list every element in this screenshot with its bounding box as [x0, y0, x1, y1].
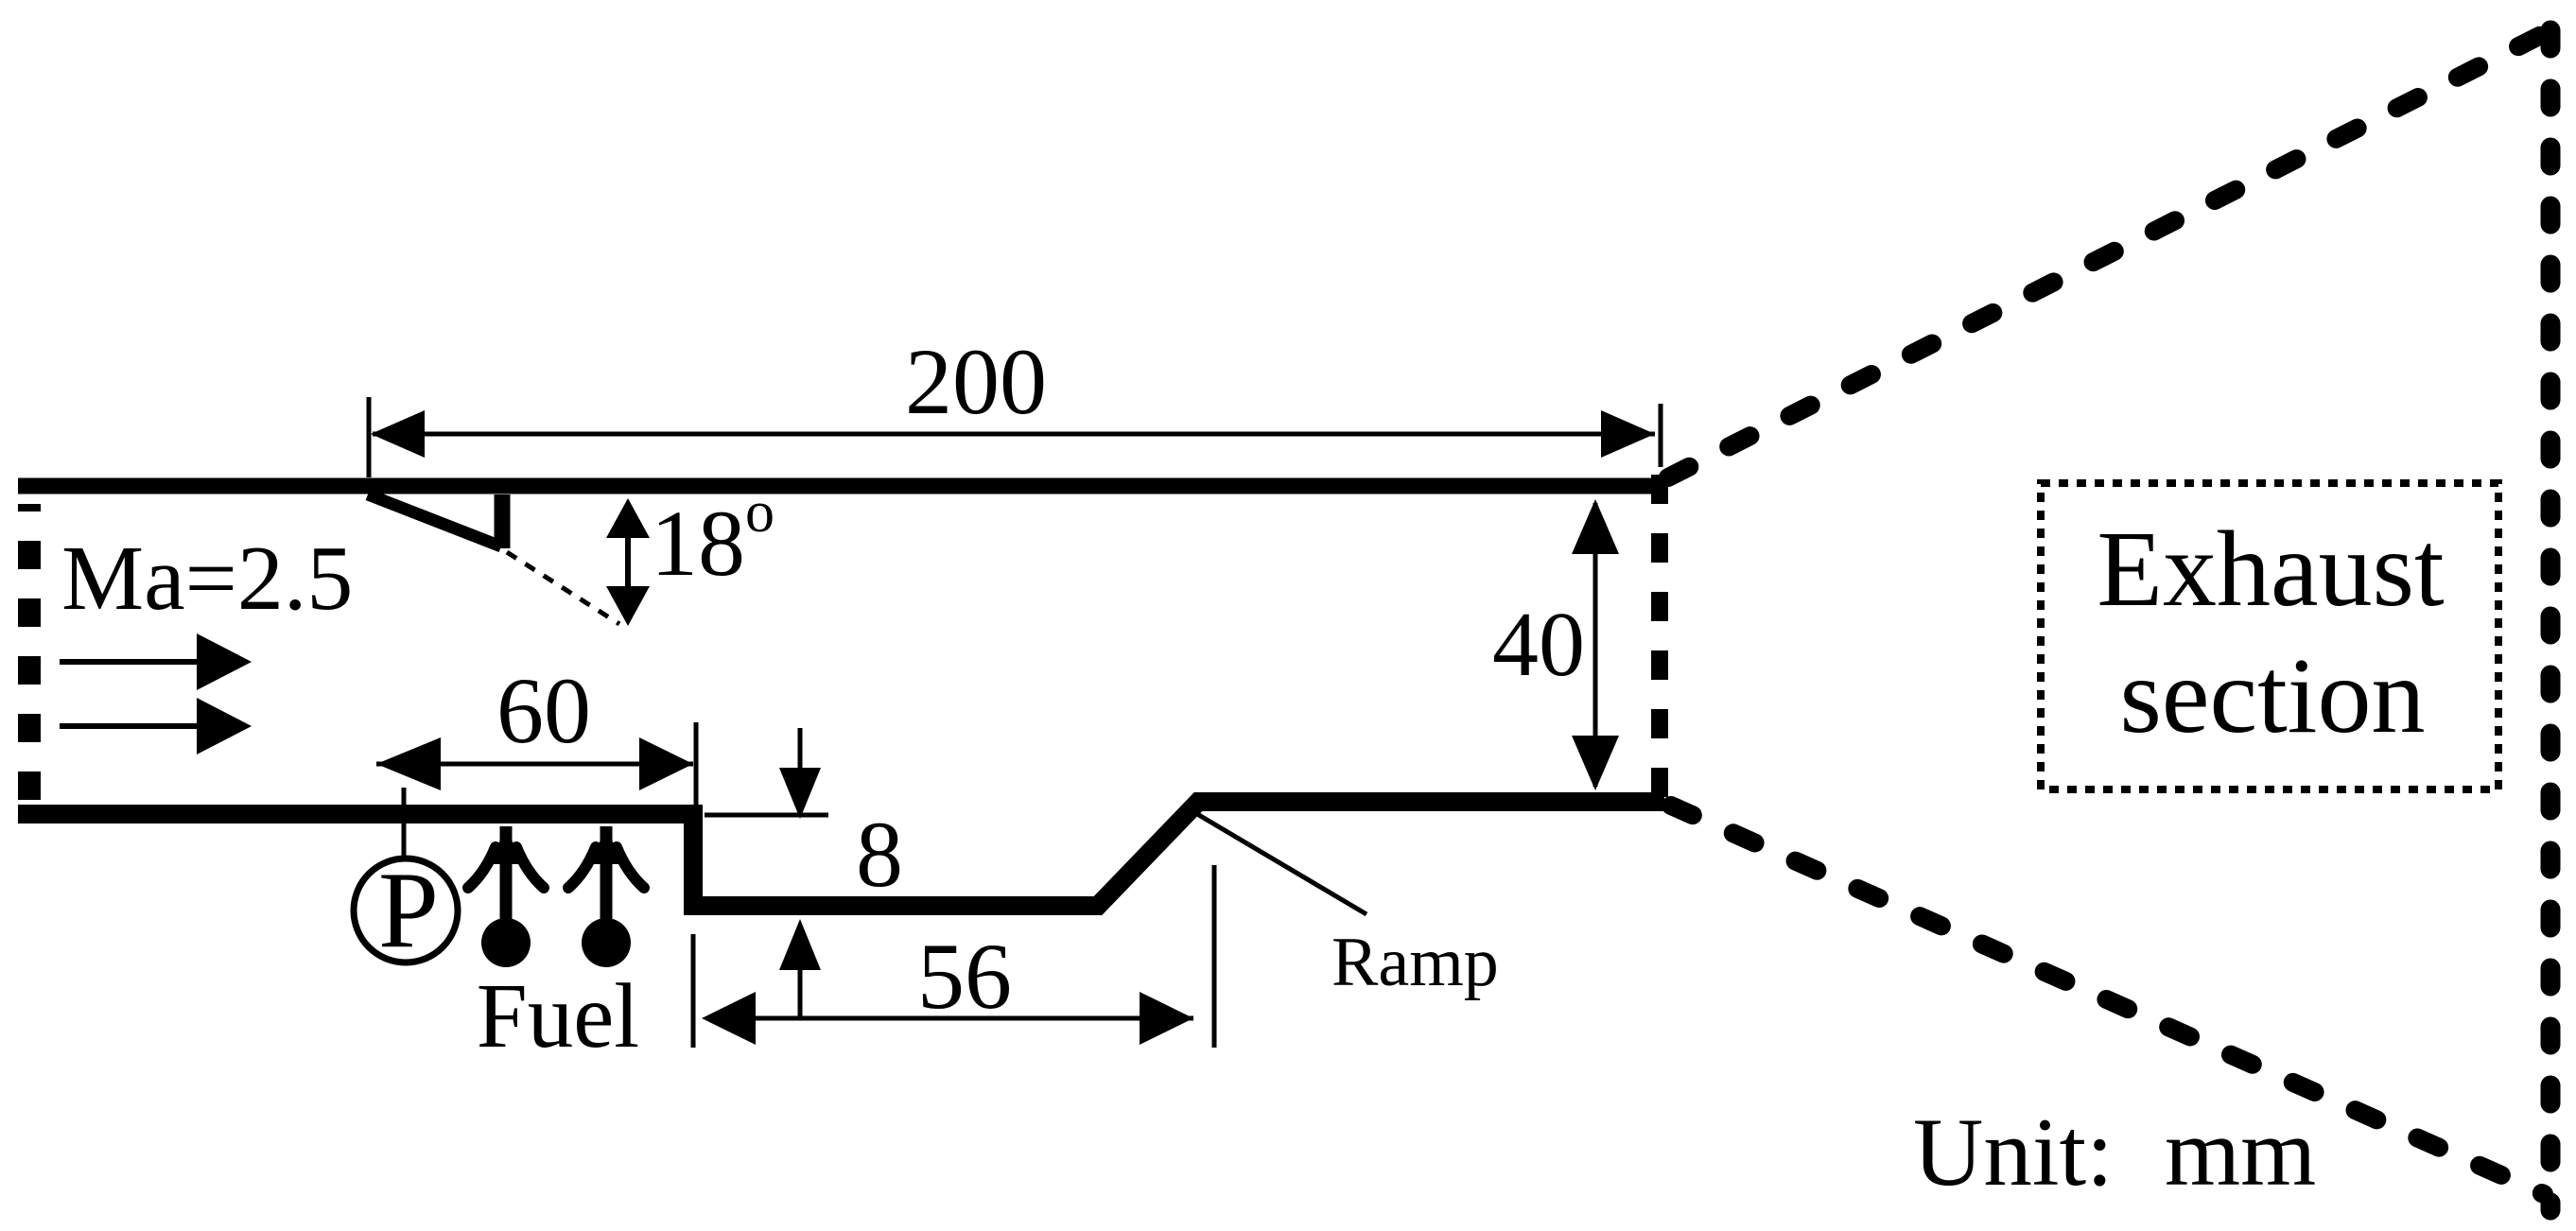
pressure tap line: [402, 788, 407, 858]
right dashed boundary: [2541, 30, 2561, 1210]
svg-text:60: 60: [496, 658, 591, 763]
svg-text:56: 56: [917, 924, 1012, 1029]
dimension 8 down arrow: [798, 728, 803, 771]
dimension 8 reference line: [705, 813, 828, 818]
wedge shock generator: [368, 494, 504, 547]
svg-text:P: P: [378, 850, 439, 970]
zoom guide dashed line bottom: [1671, 806, 2544, 1194]
wedge dashed extension line: [507, 552, 619, 624]
svg-text:Ramp: Ramp: [1332, 924, 1499, 1001]
exit dashed boundary: [1651, 475, 1668, 802]
svg-text:mm: mm: [2165, 1099, 2316, 1206]
svg-text:Exhaust: Exhaust: [2097, 509, 2444, 629]
svg-text:40: 40: [1492, 594, 1585, 696]
ramp leader line: [1197, 814, 1366, 914]
svg-text:section: section: [2120, 635, 2426, 755]
svg-text:Ma=2.5: Ma=2.5: [61, 528, 353, 630]
bottom wall with cavity step and ramp: [18, 802, 1664, 906]
pressure tap circle P: [354, 858, 458, 962]
flow arrow lower: [60, 723, 203, 729]
dimension 56 line with arrowheads: [706, 1016, 1193, 1021]
exhaust section dotted box: [2041, 483, 2498, 789]
svg-text:Unit:: Unit:: [1913, 1099, 2114, 1206]
top wall: [18, 478, 1662, 494]
svg-text:8: 8: [856, 802, 903, 907]
zoom guide dashed line top: [1668, 33, 2545, 477]
dimension 40 arrow: [1593, 503, 1598, 787]
18 degree angle arrow: [625, 515, 631, 605]
inlet dashed boundary (left): [18, 504, 41, 806]
flow arrow upper: [60, 659, 203, 665]
svg-text:Fuel: Fuel: [477, 965, 639, 1066]
svg-text:200: 200: [905, 329, 1047, 434]
dimension 8 up arrow: [779, 919, 821, 970]
dimension 60 line with arrowheads: [376, 762, 693, 767]
dimension 200 line with arrowheads: [373, 432, 1655, 437]
fuel injector 2: [568, 826, 644, 967]
fuel injector 1: [468, 826, 544, 967]
